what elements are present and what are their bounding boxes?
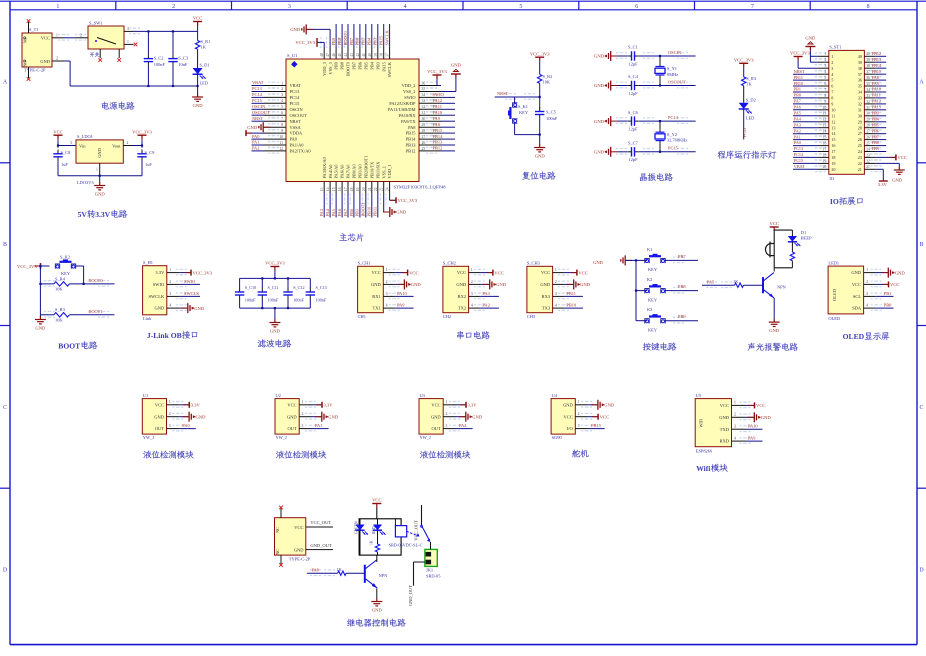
svg-text:S_ST1: S_ST1 (829, 45, 841, 50)
svg-text:GND: GND (761, 415, 772, 420)
svg-text:GND: GND (456, 282, 466, 287)
svg-text:BOOT1: BOOT1 (88, 309, 102, 314)
svg-text:6: 6 (635, 4, 638, 10)
svg-text:GND: GND (411, 282, 422, 287)
svg-text:3: 3 (281, 93, 283, 97)
svg-text:PA2/TX/A0: PA2/TX/A0 (290, 149, 312, 154)
svg-text:PB0/A0: PB0/A0 (352, 164, 357, 179)
svg-text:VCC_3V3: VCC_3V3 (790, 51, 810, 56)
svg-text:6: 6 (831, 84, 833, 89)
svg-text:100nF: 100nF (316, 298, 327, 303)
svg-text:PA0: PA0 (794, 140, 801, 145)
svg-text:PB12: PB12 (406, 149, 416, 154)
svg-text:27: 27 (422, 135, 426, 139)
svg-text:S_C5: S_C5 (546, 110, 557, 115)
svg-text:26: 26 (422, 141, 426, 145)
svg-text:6: 6 (281, 111, 283, 115)
svg-text:B: B (919, 242, 923, 248)
svg-text:S_C7: S_C7 (628, 141, 639, 146)
svg-text:VCC_3V3: VCC_3V3 (530, 51, 550, 56)
svg-text:K3: K3 (647, 307, 653, 312)
svg-text:36: 36 (422, 81, 426, 85)
svg-text:CH3: CH3 (527, 314, 536, 319)
svg-text:PB0: PB0 (349, 208, 354, 216)
svg-text:PB9: PB9 (678, 314, 686, 319)
svg-text:GND: GND (196, 414, 207, 419)
svg-text:D: D (3, 568, 8, 574)
svg-text:GND: GND (604, 403, 615, 408)
svg-text:KEY: KEY (648, 328, 658, 333)
svg-text:33: 33 (422, 99, 426, 103)
svg-text:S_C11: S_C11 (268, 285, 279, 290)
svg-text:2: 2 (578, 412, 580, 416)
svg-text:3: 3 (169, 292, 171, 296)
svg-text:S_CH2: S_CH2 (443, 261, 456, 266)
svg-text:PB1: PB1 (884, 291, 892, 296)
svg-text:PA2: PA2 (482, 303, 489, 308)
svg-text:C: C (919, 405, 923, 411)
svg-text:OLED: OLED (832, 288, 837, 301)
svg-text:3.3V: 3.3V (878, 182, 888, 187)
svg-text:18: 18 (831, 155, 835, 160)
svg-text:PA4/A0: PA4/A0 (328, 164, 333, 179)
svg-text:VDD_3: VDD_3 (322, 61, 327, 76)
svg-text:VCC_3V3: VCC_3V3 (265, 261, 285, 266)
svg-text:SG90: SG90 (552, 435, 563, 440)
svg-text:VCC_3V3: VCC_3V3 (193, 270, 213, 275)
svg-text:RX2: RX2 (458, 294, 467, 299)
svg-text:PA6: PA6 (794, 105, 801, 110)
svg-text:12pF: 12pF (629, 157, 639, 162)
svg-text:PA6/A0: PA6/A0 (340, 164, 345, 179)
svg-text:100nF: 100nF (293, 298, 304, 303)
svg-text:Vout: Vout (112, 143, 121, 148)
svg-text:37: 37 (858, 72, 862, 77)
svg-text:VCC: VCC (41, 35, 50, 40)
svg-text:2: 2 (555, 280, 557, 284)
svg-text:PB4: PB4 (367, 37, 372, 45)
svg-text:14: 14 (326, 187, 330, 191)
svg-text:PA11: PA11 (872, 93, 881, 98)
svg-text:32: 32 (858, 102, 862, 107)
svg-text:17: 17 (344, 187, 348, 191)
svg-text:VCC: VCC (372, 498, 381, 503)
svg-text:1uF: 1uF (145, 162, 152, 167)
svg-text:17: 17 (831, 149, 835, 154)
svg-text:4: 4 (404, 4, 407, 10)
svg-text:27: 27 (858, 131, 862, 136)
svg-text:17: 17 (823, 147, 827, 151)
svg-text:3: 3 (70, 141, 72, 145)
svg-text:GND: GND (247, 125, 258, 130)
svg-text:GND: GND (851, 270, 861, 275)
svg-text:PA12: PA12 (433, 98, 443, 103)
svg-text:VCC_3V3: VCC_3V3 (295, 40, 315, 45)
svg-text:8: 8 (824, 94, 826, 98)
svg-text:32.768KHz: 32.768KHz (667, 138, 687, 143)
svg-text:1: 1 (471, 268, 473, 272)
svg-text:OSCOUT: OSCOUT (668, 79, 686, 84)
svg-text:VCC: VCC (600, 414, 609, 419)
svg-text:5: 5 (519, 4, 522, 10)
svg-text:12: 12 (831, 119, 835, 124)
svg-text:1: 1 (578, 400, 580, 404)
svg-text:GREEN: GREEN (355, 521, 359, 534)
svg-text:GND: GND (496, 282, 507, 287)
svg-text:S_K1: S_K1 (518, 104, 528, 109)
svg-text:GND: GND (290, 27, 301, 32)
svg-text:PA1: PA1 (315, 423, 322, 428)
svg-text:12pF: 12pF (629, 126, 639, 131)
svg-text:PA3: PA3 (319, 208, 324, 216)
svg-text:GND: GND (593, 260, 604, 265)
svg-text:GND_OUT: GND_OUT (310, 543, 331, 548)
svg-text:C: C (3, 405, 7, 411)
svg-text:VCC: VCC (155, 402, 164, 407)
svg-text:PB7: PB7 (872, 134, 879, 139)
svg-text:15: 15 (332, 187, 336, 191)
svg-text:PB0: PB0 (884, 303, 892, 308)
svg-text:NC: NC (275, 527, 280, 533)
svg-text:18: 18 (350, 187, 354, 191)
svg-text:K2: K2 (647, 277, 652, 282)
svg-text:1: 1 (56, 4, 59, 10)
svg-text:1: 1 (866, 268, 868, 272)
svg-text:Vin: Vin (79, 143, 86, 148)
svg-text:PB14: PB14 (433, 134, 444, 139)
svg-text:7: 7 (281, 117, 283, 121)
svg-text:3.3V: 3.3V (324, 403, 334, 408)
svg-text:3: 3 (288, 4, 291, 10)
svg-text:GND: GND (535, 153, 546, 158)
svg-text:2: 2 (866, 280, 868, 284)
svg-text:PA11/USB/DM: PA11/USB/DM (388, 107, 416, 112)
svg-text:S_T1: S_T1 (29, 27, 39, 32)
svg-text:PA3: PA3 (482, 291, 490, 296)
svg-text:36: 36 (858, 78, 862, 83)
svg-text:S_D1: S_D1 (200, 63, 210, 68)
svg-text:TXD: TXD (720, 427, 730, 432)
svg-text:VCC: VCC (541, 270, 550, 275)
svg-text:29: 29 (866, 118, 870, 122)
svg-text:PC15: PC15 (252, 98, 263, 103)
svg-text:PA3/RX/A0: PA3/RX/A0 (322, 156, 327, 178)
svg-text:3: 3 (824, 64, 826, 68)
svg-text:S_Y2: S_Y2 (667, 132, 677, 137)
svg-text:TX1: TX1 (373, 306, 381, 311)
svg-text:PC15: PC15 (290, 101, 301, 106)
svg-text:22: 22 (858, 161, 862, 166)
svg-text:10: 10 (831, 107, 835, 112)
svg-text:GND: GND (372, 607, 383, 612)
svg-text:TYPE-C-2P: TYPE-C-2P (24, 68, 46, 73)
svg-text:S_R3: S_R3 (55, 307, 66, 312)
svg-text:GND: GND (194, 306, 205, 311)
svg-text:4: 4 (824, 70, 826, 74)
svg-text:VCC: VCC (897, 155, 906, 160)
svg-text:PA8: PA8 (872, 75, 879, 80)
svg-text:VCC_3V3: VCC_3V3 (17, 264, 37, 269)
svg-text:OUT: OUT (431, 426, 440, 431)
svg-text:21: 21 (368, 187, 372, 191)
svg-text:PA3: PA3 (794, 122, 801, 127)
svg-text:PC13: PC13 (794, 146, 803, 151)
svg-text:PA5/A0: PA5/A0 (334, 164, 339, 179)
svg-text:32: 32 (422, 105, 426, 109)
svg-text:VCC: VCC (720, 403, 729, 408)
svg-text:1: 1 (386, 268, 388, 272)
svg-text:PA12: PA12 (872, 99, 881, 104)
svg-text:GND: GND (892, 178, 903, 183)
svg-text:PA10: PA10 (872, 87, 881, 92)
svg-text:PB1: PB1 (355, 209, 360, 217)
svg-text:STM32F103C8T6_LQFP48: STM32F103C8T6_LQFP48 (394, 184, 447, 189)
svg-text:16: 16 (831, 143, 835, 148)
svg-text:3: 3 (446, 424, 448, 428)
svg-text:19: 19 (823, 159, 827, 163)
svg-text:GND: GND (95, 191, 106, 196)
svg-text:23: 23 (380, 187, 384, 191)
svg-text:21: 21 (858, 167, 862, 172)
svg-text:1: 1 (831, 54, 833, 59)
svg-text:4: 4 (169, 304, 171, 308)
svg-text:TYPE-C-2P: TYPE-C-2P (289, 557, 311, 562)
svg-text:25: 25 (866, 142, 870, 146)
svg-text:43: 43 (350, 53, 354, 57)
svg-text:OSCIN: OSCIN (668, 50, 682, 55)
svg-text:PA11: PA11 (433, 104, 442, 109)
svg-text:28: 28 (422, 129, 426, 133)
svg-text:U4: U4 (552, 393, 558, 398)
svg-text:S_C9: S_C9 (145, 150, 156, 155)
svg-text:40: 40 (368, 53, 372, 57)
svg-text:28: 28 (866, 124, 870, 128)
svg-text:SWCLK: SWCLK (387, 61, 392, 77)
svg-text:PB15: PB15 (406, 131, 417, 136)
svg-text:VCC: VCC (409, 270, 418, 275)
svg-text:OSCOUT: OSCOUT (290, 113, 308, 118)
svg-text:VCC: VCC (372, 270, 381, 275)
svg-text:VCC_3V3: VCC_3V3 (132, 129, 152, 134)
svg-text:VSS_1: VSS_1 (381, 166, 386, 178)
svg-text:VCC: VCC (431, 402, 440, 407)
svg-text:1K: 1K (336, 567, 342, 572)
svg-text:15: 15 (823, 136, 827, 140)
svg-text:PC14: PC14 (668, 115, 679, 120)
svg-text:VDD_2: VDD_2 (402, 83, 416, 88)
svg-text:18: 18 (823, 153, 827, 157)
svg-text:PC14: PC14 (794, 152, 804, 157)
svg-text:B: B (3, 242, 7, 248)
svg-text:NC: NC (275, 549, 280, 555)
svg-text:U5: U5 (696, 393, 702, 398)
svg-text:PA9: PA9 (397, 303, 405, 308)
svg-text:PB9: PB9 (334, 61, 339, 69)
svg-text:GND: GND (40, 59, 50, 64)
svg-text:GND: GND (805, 36, 816, 41)
svg-text:7: 7 (831, 90, 833, 95)
svg-text:7: 7 (751, 4, 754, 10)
svg-text:RX1: RX1 (372, 294, 381, 299)
svg-text:S_C8: S_C8 (61, 150, 72, 155)
svg-text:1: 1 (302, 400, 304, 404)
svg-text:I/O: I/O (567, 426, 574, 431)
svg-text:5: 5 (824, 76, 826, 80)
svg-text:VCC: VCC (756, 403, 765, 408)
svg-text:PB3: PB3 (375, 61, 380, 69)
svg-text:PA7/A0: PA7/A0 (346, 164, 351, 179)
svg-text:PB12: PB12 (433, 146, 443, 151)
svg-text:S_C10: S_C10 (245, 285, 256, 290)
svg-text:13: 13 (320, 187, 324, 191)
svg-text:VCC_3V3: VCC_3V3 (734, 58, 754, 63)
svg-text:PC15: PC15 (668, 146, 679, 151)
svg-text:3.3V: 3.3V (155, 270, 165, 275)
svg-text:OSCIN: OSCIN (290, 107, 304, 112)
svg-text:VDDA: VDDA (290, 131, 304, 136)
svg-text:KEY: KEY (648, 297, 658, 302)
svg-text:PA1/A0: PA1/A0 (290, 143, 305, 148)
svg-text:100nF: 100nF (268, 298, 279, 303)
svg-text:VCC_OUT: VCC_OUT (310, 520, 331, 525)
svg-text:38: 38 (866, 64, 870, 68)
svg-text:9: 9 (824, 100, 826, 104)
svg-text:2: 2 (169, 412, 171, 416)
svg-text:3: 3 (578, 424, 580, 428)
svg-text:SWCLK: SWCLK (184, 291, 200, 296)
svg-text:5: 5 (281, 105, 283, 109)
svg-text:VCC: VCC (287, 402, 296, 407)
svg-text:35: 35 (858, 84, 862, 89)
svg-text:8: 8 (867, 4, 870, 10)
svg-text:S_R1: S_R1 (201, 39, 211, 44)
svg-text:30: 30 (422, 117, 426, 121)
svg-text:S_CH3: S_CH3 (527, 261, 541, 266)
svg-text:SWIO: SWIO (153, 282, 165, 287)
svg-text:PA0: PA0 (182, 423, 190, 428)
svg-text:SCL: SCL (853, 294, 862, 299)
svg-text:10nF: 10nF (178, 62, 188, 67)
svg-text:39: 39 (858, 60, 862, 65)
svg-text:GND: GND (594, 54, 605, 59)
svg-text:8: 8 (281, 123, 283, 127)
svg-text:PB10: PB10 (566, 303, 577, 308)
svg-text:S_C4: S_C4 (628, 74, 639, 79)
svg-text:25: 25 (858, 143, 862, 148)
svg-text:100nF: 100nF (154, 62, 166, 67)
svg-text:A: A (919, 79, 924, 85)
svg-text:34: 34 (422, 93, 426, 97)
svg-text:PB11: PB11 (794, 75, 803, 80)
svg-text:PA2: PA2 (794, 128, 801, 133)
svg-text:PB9: PB9 (331, 37, 336, 45)
svg-text:26: 26 (866, 136, 870, 140)
svg-text:13: 13 (823, 124, 827, 128)
svg-text:21: 21 (866, 165, 870, 169)
svg-text:2: 2 (302, 412, 304, 416)
svg-text:PA5: PA5 (331, 208, 336, 216)
svg-text:S_D2: S_D2 (746, 98, 756, 103)
svg-text:SWIO: SWIO (184, 279, 195, 284)
svg-text:3: 3 (169, 424, 171, 428)
svg-text:2: 2 (734, 413, 736, 417)
svg-text:PB4: PB4 (369, 61, 374, 69)
svg-text:33: 33 (858, 96, 862, 101)
svg-text:13: 13 (831, 125, 835, 130)
svg-text:SWIO: SWIO (404, 95, 415, 100)
svg-text:S_Y1: S_Y1 (667, 66, 677, 71)
svg-text:K1: K1 (647, 247, 652, 252)
svg-text:PA9/TX: PA9/TX (401, 119, 416, 124)
svg-text:VCC_3V3: VCC_3V3 (398, 198, 418, 203)
svg-text:3.3V: 3.3V (191, 403, 201, 408)
svg-text:VDD_1: VDD_1 (387, 165, 392, 179)
svg-text:4: 4 (734, 436, 736, 440)
svg-text:22: 22 (866, 159, 870, 163)
svg-text:PB6: PB6 (358, 61, 363, 69)
svg-text:S_C2: S_C2 (154, 56, 164, 61)
svg-text:2: 2 (281, 87, 283, 91)
svg-text:19: 19 (356, 187, 360, 191)
svg-text:OSCOUT: OSCOUT (252, 110, 270, 115)
svg-text:37: 37 (866, 70, 870, 74)
svg-text:100nF: 100nF (245, 298, 256, 303)
svg-text:VCC: VCC (457, 270, 466, 275)
svg-text:Wifi: Wifi (696, 464, 710, 473)
svg-text:CH1: CH1 (358, 314, 366, 319)
svg-text:29: 29 (858, 119, 862, 124)
svg-text:20: 20 (831, 167, 835, 172)
svg-text:30: 30 (858, 113, 862, 118)
svg-text:YW_J: YW_J (276, 435, 288, 440)
svg-text:1: 1 (555, 268, 557, 272)
svg-text:VCC: VCC (852, 282, 861, 287)
svg-text:D1: D1 (801, 230, 806, 235)
svg-text:2: 2 (56, 57, 58, 61)
svg-text:ESP8266: ESP8266 (696, 449, 713, 454)
svg-text:LED: LED (200, 81, 209, 86)
svg-text:10K: 10K (55, 287, 63, 292)
svg-text:PB7: PB7 (349, 37, 354, 45)
svg-text:38: 38 (858, 66, 862, 71)
svg-text:VCC: VCC (193, 16, 202, 21)
svg-text:KEY: KEY (519, 110, 529, 115)
svg-text:OSCIN: OSCIN (252, 104, 266, 109)
svg-text:NRST: NRST (794, 69, 805, 74)
svg-text:PA4: PA4 (794, 117, 802, 122)
svg-text:1K: 1K (746, 82, 752, 87)
svg-text:GND: GND (594, 119, 605, 124)
svg-text:10: 10 (823, 106, 827, 110)
svg-text:PB5: PB5 (363, 61, 368, 69)
svg-text:24: 24 (866, 147, 870, 151)
svg-text:15: 15 (831, 137, 835, 142)
svg-text:PB3: PB3 (373, 37, 378, 45)
svg-text:3.3V: 3.3V (95, 210, 110, 219)
svg-text:10K: 10K (55, 318, 63, 323)
svg-text:PB7: PB7 (678, 254, 686, 259)
svg-text:NPN: NPN (777, 284, 787, 289)
svg-text:GND: GND (895, 270, 906, 275)
svg-text:IO: IO (830, 197, 839, 206)
svg-text:3: 3 (471, 292, 473, 296)
svg-text:GND: GND (451, 63, 462, 68)
svg-text:NRST: NRST (252, 116, 264, 121)
svg-text:11: 11 (831, 113, 835, 118)
svg-text:PA2: PA2 (252, 146, 259, 151)
svg-text:PA4: PA4 (459, 423, 467, 428)
svg-text:11: 11 (279, 141, 283, 145)
